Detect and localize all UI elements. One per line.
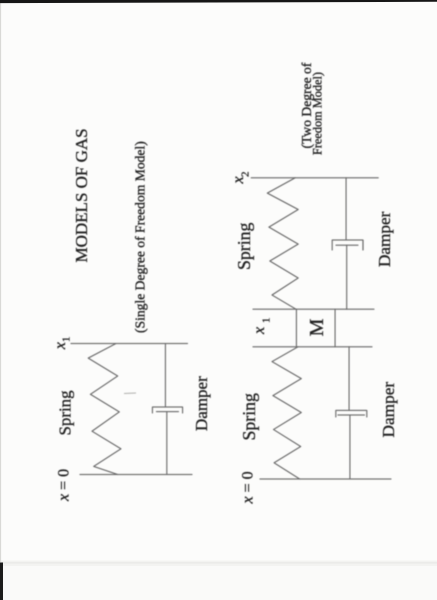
- mass box bottom edge: [334, 309, 336, 347]
- damper piston (right lower): [338, 414, 365, 416]
- svg-text:Spring: Spring: [56, 390, 75, 436]
- svg-text:Damper: Damper: [375, 211, 394, 267]
- spring K1 (right lower): [272, 347, 301, 479]
- svg-text:Damper: Damper: [192, 376, 211, 431]
- svg-text:x: x: [52, 342, 69, 350]
- faint speck: [76, 212, 78, 214]
- damper cylinder cup (right lower): [336, 410, 367, 417]
- damper rod left (right upper): [346, 245, 348, 309]
- rotated page content: normal coords (u,v) -> display (v, 600-u): [52, 62, 398, 504]
- mass plate right (right diagram): [253, 308, 374, 310]
- damper rod right (right lower): [348, 347, 350, 411]
- damper piston (left diagram): [157, 411, 179, 413]
- scan artifact: bottom-left black strip: [0, 563, 3, 600]
- spring K (left diagram): [88, 344, 121, 475]
- damper rod left (right lower): [349, 415, 351, 479]
- damper cylinder cup (left diagram): [152, 407, 182, 413]
- damper rod right (left diagram): [164, 344, 166, 408]
- svg-text:2: 2: [240, 172, 252, 178]
- svg-text:1: 1: [61, 337, 73, 343]
- wall x=0 (left diagram): [80, 474, 192, 476]
- damper cylinder cup (right upper): [332, 240, 363, 250]
- svg-text:(Single Degree of Freedom Mode: (Single Degree of Freedom Model): [133, 141, 149, 333]
- svg-text:MODELS OF GAS: MODELS OF GAS: [72, 128, 91, 262]
- svg-text:M: M: [306, 318, 328, 336]
- paper bottom edge line: [0, 561, 437, 567]
- damper rod right (right upper): [345, 178, 347, 240]
- damper rod left (left diagram): [166, 412, 168, 475]
- scanner background below paper edge: [0, 563, 437, 600]
- svg-text:x: x: [251, 327, 268, 335]
- svg-text:x = 0: x = 0: [56, 469, 73, 502]
- scan artifact: top black edge: [0, 0, 437, 3]
- svg-text:Damper: Damper: [379, 382, 398, 438]
- svg-text:Spring: Spring: [239, 393, 259, 441]
- mass box top edge: [295, 309, 297, 347]
- svg-text:Spring: Spring: [234, 222, 254, 270]
- svg-text:1: 1: [261, 318, 273, 324]
- damper piston (right upper): [336, 244, 358, 246]
- wall x1 (left diagram): [71, 343, 188, 345]
- scan artifact: left gray hairline: [0, 0, 1, 562]
- wall x2 (right diagram): [251, 177, 378, 179]
- svg-text:Freedom Model): Freedom Model): [311, 72, 325, 155]
- svg-text:x = 0: x = 0: [240, 471, 257, 504]
- spring K2 (right upper): [267, 178, 298, 309]
- faint pencil smudge near left spring: [124, 392, 136, 395]
- wall x=0 (right diagram): [260, 478, 391, 480]
- mass plate left (right diagram): [253, 346, 372, 348]
